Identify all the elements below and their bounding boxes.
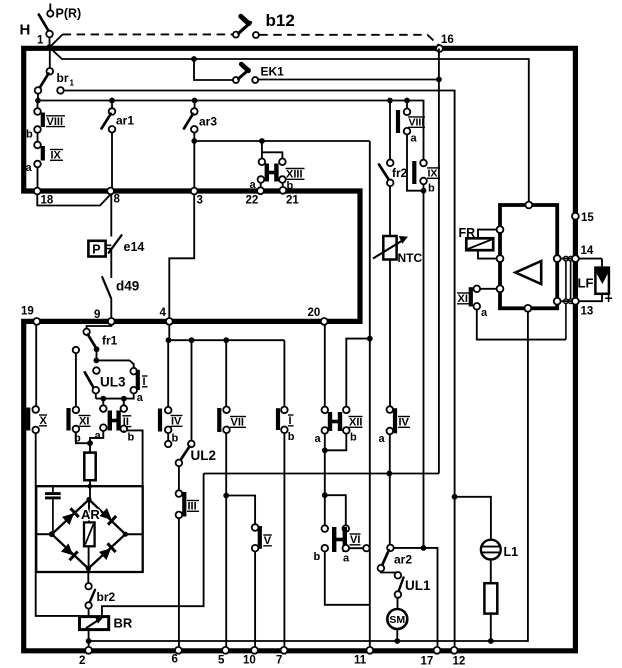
svg-text:1: 1 bbox=[70, 79, 75, 88]
svg-text:1: 1 bbox=[37, 35, 44, 47]
svg-text:P(R): P(R) bbox=[56, 7, 82, 21]
svg-text:ar1: ar1 bbox=[116, 114, 134, 128]
svg-text:ar2: ar2 bbox=[394, 553, 412, 567]
svg-text:NTC: NTC bbox=[398, 251, 423, 265]
svg-text:b: b bbox=[314, 551, 321, 563]
svg-text:a: a bbox=[411, 133, 418, 145]
svg-text:21: 21 bbox=[286, 195, 299, 207]
svg-text:12: 12 bbox=[453, 656, 466, 668]
svg-text:P: P bbox=[92, 243, 100, 257]
svg-text:13: 13 bbox=[581, 306, 594, 318]
svg-text:20: 20 bbox=[308, 307, 321, 319]
svg-text:L1: L1 bbox=[504, 545, 519, 559]
svg-text:a: a bbox=[250, 179, 257, 191]
svg-text:9: 9 bbox=[94, 309, 100, 321]
svg-text:LF: LF bbox=[578, 276, 594, 291]
svg-text:fr2: fr2 bbox=[392, 166, 408, 180]
svg-text:5: 5 bbox=[218, 655, 225, 667]
svg-text:b: b bbox=[350, 432, 357, 444]
svg-text:b12: b12 bbox=[266, 11, 295, 30]
svg-text:2: 2 bbox=[79, 655, 85, 667]
svg-text:14: 14 bbox=[581, 245, 594, 257]
svg-text:a: a bbox=[315, 433, 322, 445]
svg-text:8: 8 bbox=[114, 194, 121, 206]
svg-text:a: a bbox=[26, 162, 33, 174]
svg-text:b: b bbox=[428, 183, 435, 195]
svg-text:6: 6 bbox=[172, 654, 178, 666]
svg-text:EK1: EK1 bbox=[261, 65, 285, 79]
svg-text:e14: e14 bbox=[124, 240, 145, 254]
svg-text:fr1: fr1 bbox=[102, 334, 118, 348]
svg-text:br: br bbox=[57, 71, 69, 85]
svg-text:17: 17 bbox=[421, 656, 434, 668]
svg-text:15: 15 bbox=[581, 212, 594, 224]
svg-text:a: a bbox=[343, 553, 350, 565]
svg-text:7: 7 bbox=[276, 655, 282, 667]
svg-text:+: + bbox=[605, 290, 613, 306]
svg-text:a: a bbox=[137, 392, 144, 404]
svg-text:d49: d49 bbox=[116, 279, 139, 294]
svg-text:22: 22 bbox=[246, 195, 259, 207]
svg-text:11: 11 bbox=[354, 655, 367, 667]
svg-text:UL1: UL1 bbox=[405, 578, 431, 593]
svg-text:16: 16 bbox=[441, 34, 454, 46]
svg-text:BR: BR bbox=[114, 616, 133, 631]
svg-text:3: 3 bbox=[197, 195, 203, 207]
svg-text:b: b bbox=[172, 433, 179, 445]
svg-text:AR: AR bbox=[81, 507, 100, 522]
svg-text:b: b bbox=[288, 431, 295, 443]
svg-text:b: b bbox=[128, 432, 135, 444]
svg-text:br2: br2 bbox=[97, 590, 116, 604]
svg-text:UL2: UL2 bbox=[191, 448, 217, 463]
svg-text:4: 4 bbox=[160, 307, 167, 319]
svg-text:a: a bbox=[95, 430, 102, 442]
svg-text:a: a bbox=[379, 433, 386, 445]
svg-text:b: b bbox=[26, 129, 33, 141]
svg-text:SM: SM bbox=[389, 614, 405, 626]
svg-text:a: a bbox=[481, 307, 488, 319]
svg-text:FR: FR bbox=[459, 226, 476, 240]
svg-text:ar3: ar3 bbox=[199, 115, 217, 129]
svg-text:b: b bbox=[287, 180, 294, 192]
svg-text:H: H bbox=[20, 22, 31, 39]
svg-text:10: 10 bbox=[243, 655, 256, 667]
svg-text:19: 19 bbox=[21, 306, 34, 318]
svg-text:UL3: UL3 bbox=[100, 375, 126, 390]
